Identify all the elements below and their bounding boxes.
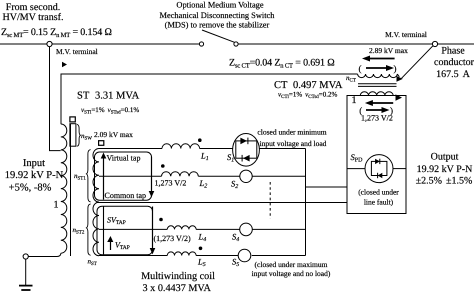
svg-text:167.5A: 167.5A (436, 69, 471, 80)
text Output 19.92 kV P-N +/-2.5% +/-1.5% (416, 152, 473, 187)
svg-text:input voltage and load: input voltage and load (260, 139, 327, 148)
svg-text:CT0.497 MVA: CT0.497 MVA (274, 80, 343, 91)
arrow CT 1,273 right (parenthesized) (359, 106, 393, 116)
wire S2 to bus (252, 175, 305, 177)
arrow V_TAP (up) (107, 236, 113, 250)
switch S_PD (thyristor pair) (347, 155, 406, 183)
wire L5 to S5 (196, 255, 239, 257)
brace n_ST2 (86, 204, 90, 255)
switch MDS open contacts (199, 42, 203, 46)
switch S2 (240, 170, 252, 182)
wire S link to CT (306, 186, 348, 188)
inductor L2 (162, 172, 199, 177)
svg-text:19.92 kV P-N: 19.92 kV P-N (5, 170, 64, 181)
svg-text:Optional Medium Voltage: Optional Medium Voltage (176, 1, 263, 10)
node M.V. terminal junction (47, 41, 52, 46)
wire virtual tap line to L1 (99, 148, 162, 150)
svg-text:1: 1 (54, 199, 59, 210)
polarity dot L5 (199, 247, 203, 251)
wire M.V. horizontal line (right segment) (438, 43, 474, 45)
ground (19, 286, 33, 290)
wire L2 tap line (99, 175, 162, 177)
wire S1 to bus (259, 148, 305, 150)
switch MDS blade (202, 30, 235, 42)
wire ST primary top to CT primary (long link) (61, 74, 358, 124)
transformer ST secondary winding (8 bumps) (93, 149, 99, 256)
svg-text:closed under minimum: closed under minimum (257, 128, 326, 137)
svg-text:ST3.31 MVA: ST3.31 MVA (77, 91, 140, 102)
polarity dot L4 (159, 218, 163, 222)
switch S1 (thyristor pair) (233, 134, 260, 167)
svg-text:19.92 kV P-N: 19.92 kV P-N (417, 164, 473, 175)
brace n_SW (77, 124, 81, 146)
winding n_SW rectangle (70, 124, 76, 147)
arrow 1,273 V/2 (down) (149, 157, 155, 198)
svg-text:(closed under maximum: (closed under maximum (255, 260, 328, 269)
brace n_ST1 (86, 150, 90, 202)
transformer CT primary winding (5 bumps below wire) (358, 74, 398, 78)
wire L4 to S4 (196, 228, 240, 230)
box CT secondary loop (347, 96, 406, 214)
switch S5 (238, 249, 251, 262)
svg-text:(1,273 V/2): (1,273 V/2) (154, 234, 192, 243)
box SV/V tap group (rounded) (97, 206, 153, 255)
svg-text:(MDS) to remove the stabilizer: (MDS) to remove the stabilizer (165, 21, 270, 30)
inductor L4 (167, 226, 196, 230)
transformer CT secondary winding (4 bumps above box) (360, 92, 393, 96)
text Input 19.92 kV P-N +5%, -8% (5, 158, 64, 194)
svg-text:1,273 V/2: 1,273 V/2 (361, 114, 393, 123)
dashed line (omitted taps) (269, 182, 271, 219)
polarity dot L2 (161, 164, 165, 168)
text Multiwinding coil 3 x 0.4437 MVA (141, 271, 215, 294)
transformer ST primary winding (10 bumps) (61, 124, 67, 253)
svg-text:Input: Input (23, 158, 45, 169)
svg-text:Common tap: Common tap (105, 191, 147, 200)
svg-text:1: 1 (352, 95, 357, 106)
wire to ground (25, 259, 27, 285)
flow arrow at CT primary right (397, 76, 403, 82)
text closed under maximum input voltage and no load (252, 260, 331, 278)
svg-text:M.V. terminal: M.V. terminal (56, 47, 98, 56)
svg-text:conductor: conductor (434, 57, 474, 68)
switch S4 (240, 223, 253, 236)
terminal M.V. right circle (432, 41, 437, 46)
wire S4 to bus (252, 228, 305, 230)
CT core lines (358, 83, 397, 85)
wire ST primary bottom to input terminal (28, 253, 61, 256)
arrow virtual tap (up) (101, 153, 107, 200)
inductor L1 (162, 144, 200, 149)
wire L1 to S1 (200, 148, 233, 150)
text: From second. HV/MV transf. (3, 2, 64, 23)
inductor L5 (167, 252, 196, 256)
wire diagonal to M.V. terminal (402, 46, 433, 79)
svg-text:(closed under: (closed under (358, 188, 399, 197)
text Phase conductor 167.5 A (434, 46, 474, 81)
arrow CT 1,273 left (365, 100, 393, 106)
wire tap rail (103, 206, 104, 254)
wire S5 to bus (252, 255, 306, 257)
text closed under minimum input voltage and load (257, 128, 326, 149)
box virtual/common tap group (rounded) (95, 152, 152, 200)
svg-text:): ) (394, 64, 397, 74)
wire from M.V. node down to ST tap (50, 47, 61, 151)
wire SV tap line (99, 228, 167, 230)
wire M.V. horizontal line (middle segment) (238, 43, 432, 45)
ST core line (70, 124, 72, 256)
wire M.V. horizontal line (left segment) (0, 43, 199, 45)
svg-text:3 x 0.4437 MVA: 3 x 0.4437 MVA (143, 283, 212, 294)
svg-text:2.89 kV max: 2.89 kV max (369, 46, 408, 55)
text closed under line fault (358, 188, 399, 207)
wire V tap line (99, 255, 167, 257)
terminal square n_SW (70, 117, 75, 122)
bus wire (tap selector common) (305, 149, 307, 256)
svg-text:Output: Output (431, 152, 459, 163)
svg-text:(: ( (359, 64, 362, 74)
svg-text:Virtual tap: Virtual tap (107, 153, 141, 162)
svg-text:2.09 kV max: 2.09 kV max (94, 130, 133, 139)
arrow 2.89 right (parenthesized) (359, 64, 397, 74)
svg-text:line fault): line fault) (364, 198, 394, 207)
text MDS note (160, 1, 276, 30)
terminal circle input neutral (23, 254, 28, 259)
svg-text:input voltage and no load): input voltage and no load) (252, 269, 331, 278)
flow arrow CT box (396, 94, 403, 100)
svg-text:Mechanical Disconnecting Switc: Mechanical Disconnecting Switch (160, 11, 276, 20)
svg-text:1,273 V/2: 1,273 V/2 (155, 178, 187, 187)
polarity dot L1 (198, 138, 202, 142)
terminal square virtual tap (99, 141, 104, 146)
svg-text:Multiwinding coil: Multiwinding coil (141, 271, 215, 282)
svg-text:HV/MV transf.: HV/MV transf. (3, 12, 64, 23)
flow arrow at ST input (62, 62, 67, 67)
wire L2 to S2 (198, 175, 240, 177)
svg-text:+5%, -8%: +5%, -8% (9, 183, 52, 194)
arrow (1,273 V/2) lower (down) (150, 207, 156, 255)
svg-text:M.V. terminal: M.V. terminal (385, 30, 427, 39)
svg-text:Phase: Phase (441, 46, 465, 57)
arrow 2.89 left (362, 56, 395, 62)
wire common tap line (97, 202, 347, 204)
